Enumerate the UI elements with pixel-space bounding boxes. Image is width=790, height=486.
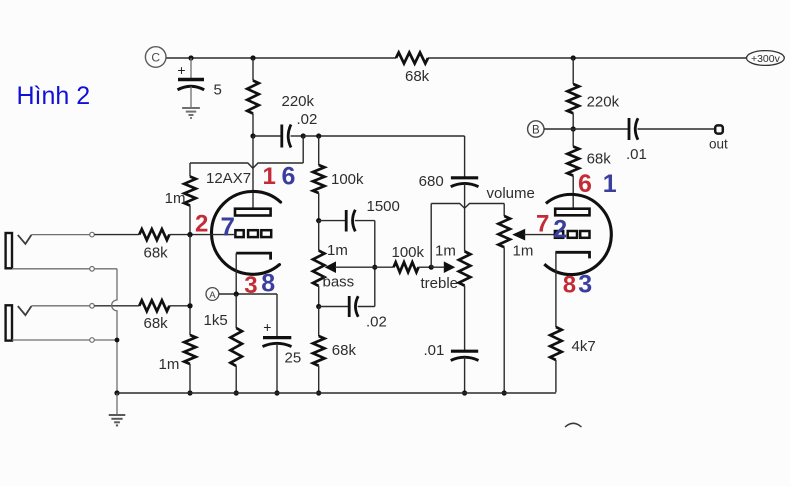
svg-text:12AX7: 12AX7 [206,170,251,187]
svg-text:68k: 68k [144,315,169,332]
svg-text:5: 5 [214,82,222,99]
svg-text:1: 1 [603,170,617,198]
svg-text:out: out [709,137,728,152]
svg-text:.02: .02 [297,111,318,128]
svg-text:2: 2 [553,216,567,244]
svg-text:volume: volume [487,185,535,202]
svg-text:B: B [532,125,540,137]
svg-text:7: 7 [221,212,235,242]
svg-text:1m: 1m [435,243,456,260]
svg-text:7: 7 [536,210,549,237]
svg-text:.01: .01 [626,146,647,163]
svg-text:1500: 1500 [367,198,400,215]
svg-text:.02: .02 [366,314,387,331]
svg-text:68k: 68k [405,68,430,85]
svg-text:1m: 1m [513,243,534,260]
svg-text:3: 3 [578,270,592,298]
svg-text:1: 1 [263,163,276,190]
svg-text:1m: 1m [165,190,186,207]
svg-text:1m: 1m [327,242,348,259]
svg-text:100k: 100k [331,171,364,188]
svg-text:+: + [177,62,185,78]
svg-text:68k: 68k [332,342,357,359]
svg-text:A: A [209,290,216,301]
svg-text:680: 680 [419,173,444,190]
svg-text:100k: 100k [392,244,425,261]
svg-text:bass: bass [323,274,355,291]
svg-text:+300v: +300v [751,53,781,65]
svg-text:treble: treble [421,275,459,292]
svg-text:+: + [263,319,271,335]
svg-text:Hình 2: Hình 2 [17,82,91,110]
svg-text:C: C [151,51,160,65]
svg-text:3: 3 [244,272,257,299]
svg-text:220k: 220k [587,94,620,111]
svg-text:.01: .01 [423,342,444,359]
svg-text:2: 2 [195,211,208,238]
svg-text:68k: 68k [144,245,169,262]
svg-text:8: 8 [563,271,576,298]
svg-text:6: 6 [282,163,296,191]
svg-text:4k7: 4k7 [572,338,596,355]
svg-text:1k5: 1k5 [204,312,228,329]
svg-text:1m: 1m [159,356,180,373]
svg-text:25: 25 [285,350,302,367]
svg-text:220k: 220k [282,93,315,110]
svg-text:68k: 68k [587,151,612,168]
